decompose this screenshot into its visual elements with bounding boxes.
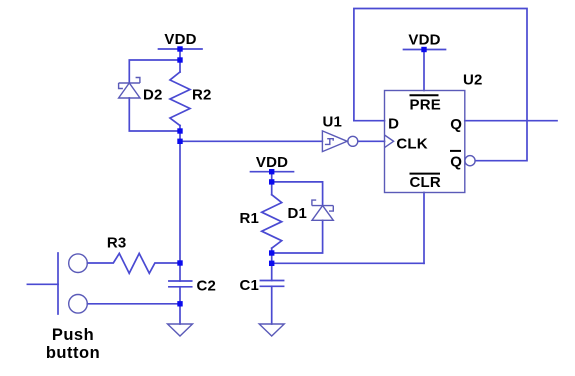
svg-text:C1: C1 [240, 277, 260, 294]
svg-text:R1: R1 [240, 210, 260, 227]
svg-text:VDD: VDD [408, 31, 440, 48]
svg-text:D1: D1 [288, 205, 308, 222]
svg-text:U1: U1 [323, 114, 343, 131]
svg-text:VDD: VDD [256, 154, 288, 171]
svg-text:Q: Q [450, 116, 462, 133]
svg-text:U2: U2 [463, 72, 483, 89]
svg-text:D: D [388, 115, 399, 132]
svg-text:C2: C2 [197, 277, 217, 294]
svg-text:CLK: CLK [396, 135, 427, 152]
svg-text:CLR: CLR [410, 174, 441, 191]
svg-text:PRE: PRE [410, 96, 441, 113]
svg-text:R2: R2 [192, 87, 212, 104]
svg-text:Q: Q [450, 153, 462, 170]
svg-text:Push: Push [52, 326, 94, 344]
svg-text:D2: D2 [143, 87, 163, 104]
svg-text:R3: R3 [107, 234, 127, 251]
svg-text:button: button [46, 344, 100, 362]
svg-text:VDD: VDD [164, 31, 196, 48]
